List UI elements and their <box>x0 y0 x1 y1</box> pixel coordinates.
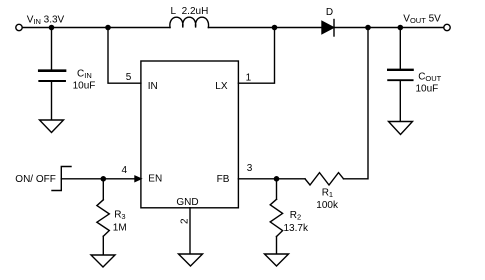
svg-text:EN: EN <box>148 174 162 185</box>
node VIN-IN junction <box>105 25 111 31</box>
signal step ON/OFF <box>52 167 71 191</box>
wire R2 bottom <box>276 237 278 255</box>
ground R2 <box>265 254 289 266</box>
svg-text:IN: IN <box>148 81 158 92</box>
svg-text:5: 5 <box>126 72 132 83</box>
capacitor CIN <box>39 71 65 81</box>
svg-text:R2: R2 <box>290 210 301 222</box>
svg-text:13.7k: 13.7k <box>284 223 309 234</box>
wire R3 top <box>102 179 104 200</box>
svg-text:3: 3 <box>247 163 253 174</box>
arrow into EN <box>135 176 141 181</box>
wire COUT bottom <box>399 81 401 121</box>
wire R2 top <box>276 179 278 200</box>
svg-text:VIN 3.3V: VIN 3.3V <box>27 15 65 27</box>
node EN-R3 junction <box>101 176 107 182</box>
ground CIN <box>40 120 64 133</box>
svg-text:10uF: 10uF <box>416 83 439 94</box>
svg-text:1: 1 <box>246 72 252 83</box>
svg-text:COUT: COUT <box>418 71 441 83</box>
wire R3 bottom <box>102 236 104 255</box>
svg-text:FB: FB <box>217 174 230 185</box>
wire IN pin 5 <box>108 28 141 84</box>
capacitor COUT <box>388 70 412 80</box>
wire EN pin 4 <box>61 178 135 180</box>
svg-text:R3: R3 <box>114 210 125 222</box>
ground COUT <box>389 122 413 135</box>
svg-text:2: 2 <box>180 218 191 224</box>
terminal VIN <box>16 24 22 30</box>
ground GND pin <box>179 254 203 266</box>
node VIN-CIN junction <box>49 25 55 31</box>
wire CIN top <box>51 28 53 70</box>
terminal VOUT <box>444 24 450 30</box>
wire CIN bottom <box>51 82 53 120</box>
svg-text:4: 4 <box>122 165 128 176</box>
resistor R1 <box>305 173 344 185</box>
wire R1 to VOUT rail <box>344 28 369 179</box>
svg-text:GND: GND <box>176 197 198 208</box>
svg-text:LX: LX <box>215 81 228 92</box>
wire FB pin 3 <box>238 178 305 180</box>
node FB-R2 junction <box>274 176 280 182</box>
svg-text:CIN: CIN <box>77 68 92 80</box>
inductor L 2.2uH <box>170 17 209 27</box>
diode D <box>322 20 334 37</box>
resistor R3 <box>97 200 109 237</box>
node COUT junction <box>398 25 404 31</box>
wire VIN rail to inductor <box>22 27 170 29</box>
svg-text:ON/ OFF: ON/ OFF <box>15 174 56 185</box>
wire inductor to diode <box>208 27 321 29</box>
svg-text:1M: 1M <box>113 222 127 233</box>
svg-text:100k: 100k <box>316 200 339 211</box>
svg-text:10uF: 10uF <box>73 80 96 91</box>
wire LX pin 1 <box>238 28 274 84</box>
resistor R2 <box>270 199 282 236</box>
node LX junction <box>272 25 278 31</box>
node R1 junction <box>365 25 371 31</box>
ground R3 <box>91 255 115 267</box>
wire diode to VOUT <box>334 27 444 29</box>
svg-text:D: D <box>326 7 333 18</box>
svg-text:R1: R1 <box>322 188 333 200</box>
wire COUT top <box>399 28 401 69</box>
IC U1 body <box>141 61 239 208</box>
svg-text:VOUT 5V: VOUT 5V <box>403 13 441 25</box>
wire GND pin 2 <box>189 208 191 254</box>
svg-text:L 2.2uH: L 2.2uH <box>171 6 209 17</box>
